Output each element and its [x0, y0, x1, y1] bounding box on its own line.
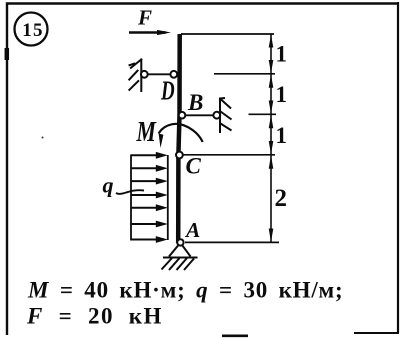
moment M arrowhead [159, 134, 164, 149]
svg-text:1: 1 [276, 123, 288, 148]
pin B on beam [179, 112, 186, 119]
pin on wall at D [141, 71, 148, 78]
extension line at B level [249, 113, 277, 115]
moment M arc [159, 124, 203, 142]
svg-text:1: 1 [276, 82, 288, 107]
svg-text:B: B [187, 90, 203, 115]
extension line at C level [184, 154, 276, 156]
distributed load arrows [131, 152, 168, 243]
svg-text:C: C [186, 154, 202, 179]
pin C (hinge) on beam [176, 152, 183, 159]
svg-text:2: 2 [275, 185, 288, 212]
extension line top [181, 33, 274, 35]
svg-text:M: M [136, 118, 158, 148]
pin on wall at B [213, 112, 220, 119]
problem number badge 15 [15, 13, 48, 46]
pin D on beam [170, 71, 177, 78]
ground hatching at A [162, 258, 195, 270]
svg-text:A: A [184, 218, 200, 242]
svg-text:1: 1 [276, 42, 288, 67]
pin support at A [177, 239, 183, 245]
force F arrow [129, 30, 171, 35]
distributed load q box [131, 155, 168, 241]
extension line at D level [214, 73, 275, 75]
svg-text:15: 15 [22, 20, 43, 41]
wall support at D (hatched) [129, 59, 142, 93]
svg-text:D: D [160, 76, 175, 106]
beam (vertical bar from top to A) [178, 34, 180, 243]
stray speck (scan artifact) [42, 137, 44, 139]
extension line at A level [185, 241, 279, 243]
dimension arrowheads [269, 35, 274, 243]
svg-text:F = 20 кН: F = 20 кН [26, 304, 163, 329]
dimension line (vertical) [270, 34, 272, 242]
ground line at A [163, 257, 198, 259]
svg-text:M = 40 кН·м; q = 30 кН/м;: M = 40 кН·м; q = 30 кН/м; [27, 278, 343, 303]
wall support at B (hatched) [220, 98, 232, 134]
link rod at D [147, 73, 171, 75]
leader line from q to load [116, 190, 144, 194]
svg-text:F: F [137, 6, 152, 30]
support A triangle [169, 245, 191, 257]
svg-text:q: q [103, 173, 114, 198]
link rod at B [186, 114, 214, 116]
